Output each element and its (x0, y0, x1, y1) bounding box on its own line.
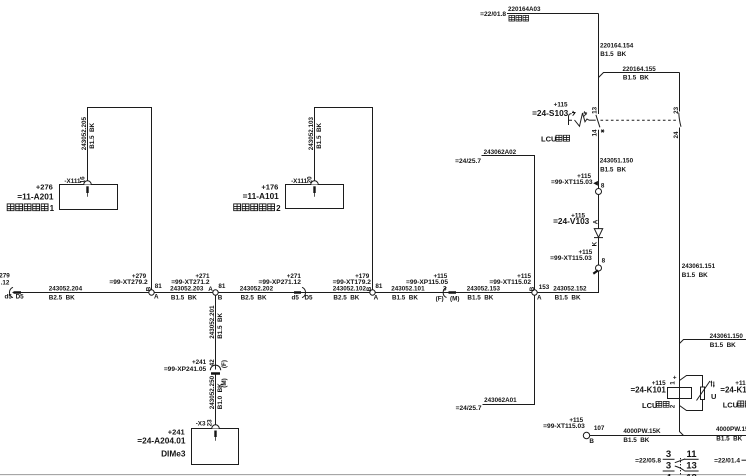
svg-text:=24/25.7: =24/25.7 (455, 158, 481, 165)
svg-text:=24-V103: =24-V103 (553, 216, 590, 226)
wire label 243052.101 (391, 286, 425, 302)
svg-text:24: 24 (673, 131, 680, 139)
svg-text:LCU: LCU (723, 400, 738, 409)
connector XP271.12 d5/D5 (259, 273, 314, 302)
svg-text:243052.204: 243052.204 (49, 286, 83, 293)
wire coil to bottom bus (680, 399, 684, 436)
svg-text:B1.5 BK: B1.5 BK (467, 294, 493, 301)
svg-text:(F): (F) (436, 296, 444, 303)
svg-text:1: 1 (670, 381, 677, 385)
svg-text:B1.5 BK: B1.5 BK (316, 122, 323, 148)
svg-text:B1.5 BK: B1.5 BK (600, 51, 626, 58)
svg-text:=99-XT279.2: =99-XT279.2 (109, 279, 148, 286)
svg-text:81: 81 (218, 283, 226, 290)
svg-text:20: 20 (306, 176, 313, 184)
svg-text:=99-XP115.05: =99-XP115.05 (406, 279, 448, 286)
svg-text:243052.203: 243052.203 (170, 286, 204, 293)
svg-text:220164A03: 220164A03 (508, 6, 541, 13)
svg-text:279: 279 (0, 273, 10, 280)
relay coil K101 (630, 375, 691, 410)
wire 220164.154 (599, 14, 634, 115)
wire to contact 23 (679, 73, 681, 112)
svg-text:LCU: LCU (541, 135, 556, 144)
varistor across K101 coil (680, 376, 717, 411)
svg-text:=99-XT179.2: =99-XT179.2 (333, 279, 372, 286)
svg-text:-X3: -X3 (196, 421, 206, 428)
main bus wire (13, 292, 599, 294)
svg-text:=11-A201: =11-A201 (17, 192, 54, 202)
svg-text:=99-XP271.12: =99-XP271.12 (259, 279, 302, 286)
svg-text:.12: .12 (1, 280, 10, 287)
connector X3 pin 23 on DIMe3 (196, 419, 220, 441)
svg-text:=24/25.7: =24/25.7 (456, 405, 482, 412)
svg-text:B1.5 BK: B1.5 BK (217, 312, 224, 338)
svg-text:12: 12 (686, 473, 697, 476)
svg-text:=99-XT271.2: =99-XT271.2 (171, 279, 210, 286)
svg-text:3: 3 (666, 449, 671, 460)
wire to diode (598, 195, 600, 229)
svg-text:B1.5 BK: B1.5 BK (600, 167, 626, 174)
relay K102 labels (720, 380, 746, 409)
connector X111 pin 16 on A201 (64, 176, 91, 197)
svg-text:8: 8 (601, 183, 605, 190)
svg-text:=22/01.4: =22/01.4 (714, 457, 740, 464)
svg-text:3: 3 (666, 461, 671, 472)
svg-text:-X111: -X111 (291, 178, 308, 185)
connector d5/D5 left (0, 273, 24, 301)
svg-text:243052.201: 243052.201 (209, 305, 216, 339)
svg-text:+241: +241 (192, 359, 207, 366)
svg-text:243062A01: 243062A01 (484, 397, 517, 404)
svg-text:243061.151: 243061.151 (682, 263, 716, 270)
svg-text:220164.154: 220164.154 (600, 43, 634, 50)
svg-text:243052.205: 243052.205 (81, 117, 88, 151)
svg-text:=24-K101: =24-K101 (630, 385, 666, 394)
svg-text:2: 2 (670, 404, 677, 408)
node =22/01.8 driver controller reference (480, 6, 541, 21)
svg-text:3: 3 (443, 286, 447, 293)
svg-text:B: B (145, 286, 152, 291)
wire 243061.150 branch (680, 333, 746, 349)
wire 243062A01 (456, 295, 535, 412)
svg-text:=24-K102: =24-K102 (720, 385, 746, 394)
svg-text:4: 4 (666, 473, 672, 476)
svg-text:+276: +276 (36, 183, 53, 192)
terminal XT115.03 pin 8 upper (551, 173, 605, 195)
svg-text:16: 16 (80, 176, 87, 184)
svg-text:23: 23 (673, 106, 680, 114)
svg-text:243062A02: 243062A02 (484, 149, 517, 156)
wire 243052.103 (308, 108, 373, 291)
svg-text:U: U (711, 392, 716, 401)
svg-text:DIMe3: DIMe3 (161, 449, 186, 459)
svg-text:1: 1 (50, 204, 55, 213)
svg-text:=99-XP241.05: =99-XP241.05 (164, 366, 207, 373)
terminal XT115.03 pin 8 lower (550, 249, 605, 274)
svg-text:243052.102: 243052.102 (333, 286, 367, 293)
svg-text:2: 2 (276, 204, 281, 213)
svg-text:11: 11 (686, 449, 697, 460)
dashed mechanical link (601, 119, 678, 121)
switch S103 contact 13-14 (532, 101, 604, 143)
svg-text:243051.150: 243051.150 (600, 157, 634, 164)
connector XP241.05 pin 42 (164, 359, 228, 388)
svg-text:B: B (366, 286, 373, 291)
svg-text:B: B (589, 438, 594, 445)
wire 243051.150 (599, 130, 634, 189)
wire label 243052.203 (170, 286, 204, 302)
svg-text:B2.5 BK: B2.5 BK (333, 294, 359, 301)
svg-text:=11-A101: =11-A101 (243, 191, 280, 201)
svg-text:153: 153 (539, 284, 550, 291)
wire label 243052.153 (467, 286, 501, 302)
svg-text:=99-XT115.03: =99-XT115.03 (551, 179, 593, 186)
connector X111 pin 20 on A101 (291, 176, 318, 197)
svg-text:=99-XT115.03: =99-XT115.03 (550, 255, 592, 262)
switch S103 contact 23-24 (673, 106, 681, 138)
svg-text:+: + (673, 375, 677, 382)
svg-text:B1.5 BK: B1.5 BK (89, 122, 96, 148)
svg-text:4000PW.15K: 4000PW.15K (716, 426, 746, 433)
terminal XT115.02 pin 153 (489, 273, 549, 302)
svg-text:243061.150: 243061.150 (710, 333, 744, 340)
svg-text:(M): (M) (450, 296, 459, 303)
svg-text:A: A (208, 286, 213, 293)
wire 243062A02 (455, 149, 534, 290)
terminal XT179.2 pin 81 (333, 273, 383, 302)
svg-text:=99-XT115.02: =99-XT115.02 (489, 279, 531, 286)
DIMe3 box A204.01 (137, 428, 238, 465)
svg-text:23: 23 (207, 419, 214, 427)
svg-text:A: A (592, 219, 599, 224)
svg-text:B2.5 BK: B2.5 BK (241, 294, 267, 301)
wire 243061.151 right drop (680, 128, 716, 388)
svg-text:-X111: -X111 (64, 178, 81, 185)
svg-text:=24-S103: =24-S103 (532, 108, 569, 118)
wire 220164.155 branch (599, 66, 680, 82)
svg-text:220164.155: 220164.155 (623, 66, 657, 73)
svg-text:42: 42 (209, 359, 216, 367)
wire 243052.201 drop (209, 295, 224, 370)
svg-text:243052.250: 243052.250 (209, 375, 216, 409)
terminal XT271.2 pin 81 (171, 273, 226, 302)
svg-text:243052.103: 243052.103 (308, 117, 315, 151)
svg-text:B: B (218, 294, 223, 301)
connector XP115.05 pin 3 (406, 273, 459, 303)
svg-text:4000PW.15K: 4000PW.15K (623, 428, 661, 435)
wire label 243052.204 (49, 286, 83, 302)
inverter box A201 (7, 183, 117, 214)
svg-text:D5: D5 (16, 294, 25, 301)
svg-text:14: 14 (592, 129, 599, 137)
svg-text:B2.5 BK: B2.5 BK (49, 294, 75, 301)
svg-text:B1.5 BK: B1.5 BK (623, 75, 649, 82)
svg-text:A: A (537, 295, 542, 302)
wire label 243052.202 (240, 286, 274, 302)
svg-text:(F): (F) (221, 360, 228, 368)
svg-text:K: K (592, 241, 599, 246)
svg-text:=22/01.8: =22/01.8 (480, 11, 506, 18)
contact cross-reference K101 (635, 449, 746, 476)
svg-text:B1.5 BK: B1.5 BK (710, 342, 736, 349)
svg-text:243052.152: 243052.152 (553, 286, 587, 293)
sheet border bottom (0, 474, 746, 476)
wire label 243052.102 (333, 286, 367, 302)
svg-text:243052.153: 243052.153 (467, 286, 501, 293)
svg-text:LCU: LCU (642, 401, 657, 410)
inverter box A101 (234, 183, 344, 214)
svg-text:81: 81 (375, 283, 383, 290)
svg-text:13: 13 (686, 461, 697, 472)
svg-text:107: 107 (594, 425, 605, 432)
svg-text:=99-XT115.03: =99-XT115.03 (543, 423, 585, 430)
svg-text:B1.5 BK: B1.5 BK (555, 294, 581, 301)
svg-text:8: 8 (602, 258, 606, 265)
svg-text:=24-A204.01: =24-A204.01 (137, 435, 186, 445)
wire 243052.152 (535, 271, 599, 301)
svg-text:A: A (374, 294, 379, 301)
diode V103 (553, 212, 603, 246)
svg-text:243052.202: 243052.202 (240, 286, 274, 293)
svg-text:=22/05.8: =22/05.8 (635, 457, 661, 464)
svg-text:B1.5 BK: B1.5 BK (716, 436, 742, 443)
terminal XT279.2 pin 81 (109, 273, 162, 301)
svg-text:B1.0 BK: B1.0 BK (217, 383, 224, 409)
wire 220164A03 (507, 13, 599, 15)
wire 243052.205 (81, 108, 152, 291)
terminal XT115.03 pin 107 (543, 417, 605, 445)
svg-text:B1.5 BK: B1.5 BK (682, 272, 708, 279)
svg-text:B1.5 BK: B1.5 BK (171, 294, 197, 301)
svg-text:d5: d5 (292, 294, 300, 301)
svg-text:A: A (154, 294, 159, 301)
wire diode to terminal (598, 238, 600, 265)
svg-text:243052.101: 243052.101 (391, 286, 425, 293)
wire 4000PW.15K bottom bus (590, 426, 746, 444)
svg-text:d5: d5 (5, 294, 13, 301)
svg-text:B1.5 BK: B1.5 BK (623, 437, 649, 444)
svg-text:D5: D5 (305, 294, 314, 301)
svg-text:81: 81 (155, 283, 163, 290)
wire 243052.250 (209, 375, 224, 426)
svg-text:13: 13 (592, 106, 599, 114)
svg-text:B1.5 BK: B1.5 BK (392, 294, 418, 301)
